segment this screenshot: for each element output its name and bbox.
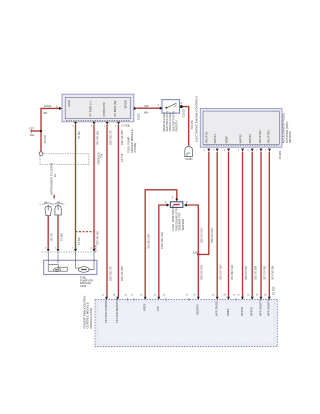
wire FPDM to IFS switch [137,107,161,109]
APP pin row dashes [204,145,279,147]
svg-text:SIG RTN: SIG RTN [204,132,208,143]
pump pin stub 4 [90,252,95,269]
svg-text:SIG RTN3: SIG RTN3 [267,130,271,143]
svg-text:C175E: C175E [271,286,275,295]
svg-text:357 GY BK: 357 GY BK [262,266,266,280]
FPDM pin numbers [72,126,117,128]
pump pin stub 1 [47,252,49,264]
wire FPDM pin4 fp monitor down to PCM [117,125,119,297]
fuse stub wire [32,130,42,132]
FTP left pin arrow [167,203,170,206]
svg-text:C436: C436 [94,244,98,251]
FPDM bottom pin 2 arrow [93,122,96,125]
wire APP pin5 down to PCM [251,152,253,297]
APP pin numbers [204,149,267,151]
svg-text:F57: F57 [30,127,35,131]
FPDM right pin arrow [134,107,137,110]
pump pin stub 2 [57,252,59,263]
PCM top pin arrows [105,297,271,300]
svg-text:APPS2: APPS2 [238,134,242,143]
svg-text:351 BN WH: 351 BN WH [147,234,151,249]
pump pin numbers [45,247,93,249]
splice S113 circle [39,152,43,156]
svg-text:355 GY WH: 355 GY WH [219,265,223,280]
svg-text:GND: GND [67,100,71,106]
PCM spare pin stubs [128,298,237,301]
svg-text:APPS3: APPS3 [248,134,252,143]
fuse terminal cross [30,129,33,133]
svg-text:APP SNSR1: APP SNSR1 [215,300,219,316]
wire APP pin3 down to PCM [228,152,230,297]
pump pin stub 3 [75,252,77,267]
IFS right pin dot [180,105,183,108]
svg-text:SIG RTN2: SIG RTN2 [258,130,262,143]
svg-text:18 TW: 18 TW [120,153,124,162]
FPDM bottom pin 3 arrow [106,122,109,125]
FPDM left pin arrow [59,107,62,110]
wire APP pin4 down to PCM [242,152,244,297]
stub above goblet [53,195,55,199]
svg-text:C1023: C1023 [181,109,185,118]
svg-text:29 YE: 29 YE [50,233,54,241]
APP sensor box inner [203,111,279,144]
FPDM bottom pin 4 arrow [117,122,120,125]
svg-text:352 YE BN: 352 YE BN [254,266,258,280]
svg-text:VPWR: VPWR [123,100,127,108]
svg-text:57 BK: 57 BK [59,233,63,241]
svg-text:926 DG YE: 926 DG YE [109,130,113,145]
svg-text:VREF: VREF [224,135,228,143]
svg-text:C1381: C1381 [278,150,282,159]
svg-text:APPS1: APPS1 [213,134,217,143]
svg-text:359 GY RD: 359 GY RD [210,228,214,243]
IFS left pin arrow [160,107,163,110]
svg-text:19: 19 [53,173,57,177]
goblet connector instrument cluster pin 2 [55,206,61,215]
svg-text:353 DG BK: 353 DG BK [271,265,275,280]
fuel pump motor ellipse [78,267,89,273]
PCM inner dotted [98,302,275,344]
svg-text:57 BK: 57 BK [77,237,81,245]
junction dot fuse stub [40,130,42,132]
svg-text:15 RD: 15 RD [43,135,47,143]
svg-text:FP MON (M): FP MON (M) [113,101,117,117]
FTP sensor box [170,202,183,208]
wire fuel level sender signal [47,216,49,249]
FTP top pin arrow [175,199,178,202]
svg-text:929 WH BK: 929 WH BK [120,266,124,281]
pump pin arrow 1 [47,249,50,252]
svg-text:APP SIGRTN: APP SIGRTN [258,299,262,316]
svg-text:SIGRTN: SIGRTN [196,304,200,315]
svg-text:VREF: VREF [226,308,230,316]
svg-text:787 PK BK: 787 PK BK [96,131,100,145]
fuel level sender loop [48,265,67,272]
svg-text:SENSOR: SENSOR [181,219,185,231]
svg-text:926 DG YE: 926 DG YE [109,266,113,281]
svg-text:(FPDM): (FPDM) [133,143,137,153]
svg-text:SWITCH: SWITCH [175,120,179,131]
svg-text:351 BN WH: 351 BN WH [230,265,234,280]
wire APP pin7 down to PCM [268,152,270,297]
pump connector dashed line [42,251,98,253]
svg-text:787 PK BK: 787 PK BK [96,231,100,245]
wire APP pin6 down to PCM [260,152,262,297]
wire IFS to bell connector [183,107,189,146]
wire APP pin2 down to PCM [216,152,218,297]
svg-text:359 GY RD: 359 GY RD [200,265,204,280]
svg-text:1CA12: 1CA12 [44,104,52,108]
shield dashed line lower [40,163,90,165]
pump module box [44,260,97,274]
svg-text:FTP: FTP [156,306,160,311]
FTP right pin arrow [184,203,187,206]
wire FPDM pin1 power ground down [75,125,77,249]
svg-text:FP PWR MONITOR: FP PWR MONITOR [115,298,119,323]
svg-text:APP SIGRTN: APP SIGRTN [267,299,271,316]
fuel level sender ellipse [53,268,60,272]
wire FPDM pin3 fpc down to PCM [106,125,108,297]
pump pin arrow 3 [74,249,77,252]
shield dashed line upper [44,153,89,155]
bell connector [185,147,193,157]
svg-text:ELECTRONIC ENGINE CONTROLS: ELECTRONIC ENGINE CONTROLS [194,96,198,142]
svg-text:C436: C436 [80,284,87,288]
IFS switch blade [167,103,177,108]
wire FTP signal left [159,205,168,297]
FTP sensor inner mark [174,204,180,206]
pump pin arrow 2 [57,249,60,252]
IFS switch box [162,100,180,114]
svg-text:929 WH BK: 929 WH BK [120,130,124,145]
svg-text:C175B: C175B [122,124,130,128]
PCM box [95,300,277,347]
svg-text:FPDM FPC: FPDM FPC [102,102,106,116]
wire battery feed horizontal to FPDM [41,107,60,109]
IFS switch pivot dot [166,107,168,109]
svg-text:INSTRUMENT CLUSTER: INSTRUMENT CLUSTER [50,163,54,195]
FPDM pin row dashes [66,119,130,121]
svg-text:TW: TW [100,153,104,158]
wire FPDM pin2 fp power down [93,125,95,249]
svg-text:FP PWR (+): FP PWR (+) [89,101,93,116]
shield dashed vertical right [88,154,90,165]
svg-text:15A: 15A [30,133,35,137]
goblet connector instrument cluster pin 1 [45,206,51,215]
FPDM bottom pin 1 arrow [74,122,77,125]
svg-text:359 GY RD: 359 GY RD [200,228,204,243]
wire fuel level sender return [57,215,59,249]
FPDM box outer [62,94,134,122]
svg-text:C1081: C1081 [185,157,193,161]
svg-text:SENSOR: SENSOR [288,131,292,143]
junction dot sig rtn [197,253,199,255]
wire battery feed vertical drop [40,108,42,151]
APP bottom pin arrows [207,149,271,152]
svg-text:356 GY BK: 356 GY BK [244,266,248,280]
wire FTP sig rtn right [185,205,199,297]
svg-text:CDH DG WH: CDH DG WH [160,232,164,249]
svg-text:MODULE (PCM): MODULE (PCM) [89,308,93,329]
connector dashed line over goblets [40,203,66,205]
svg-text:FP PWR CONTROL: FP PWR CONTROL [104,297,108,323]
twisted pair dashed red [76,231,95,233]
svg-text:APPS2: APPS2 [240,307,244,316]
svg-text:RD: RD [44,111,48,115]
svg-text:VREF: VREF [143,303,147,311]
svg-text:349: 349 [144,104,149,108]
svg-text:WH: WH [144,111,148,115]
wire APP pin1 sig rtn to junction [198,152,209,255]
FPDM box inner [65,97,130,118]
svg-text:APPS3: APPS3 [250,307,254,316]
pump pin arrow 4 [93,249,96,252]
APP sensor box outer [200,109,282,148]
PCM pin numbers [102,295,268,297]
svg-text:C202: C202 [137,113,141,120]
svg-text:57 BK: 57 BK [77,131,81,139]
shield dashed drop from splice [39,156,41,164]
wire FTP vref loop [145,190,177,297]
